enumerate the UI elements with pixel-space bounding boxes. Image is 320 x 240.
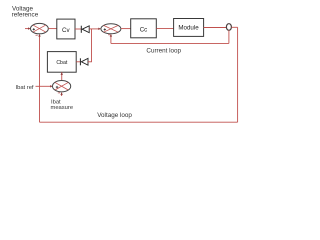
svg-text:Ibat ref: Ibat ref	[16, 85, 34, 91]
wire Ibat measure input	[61, 93, 63, 96]
summing junction SJ2	[101, 24, 121, 34]
diode D1	[80, 26, 82, 33]
wire current loop horizontal	[111, 42, 229, 44]
wire current loop drop from node	[228, 30, 230, 43]
svg-text:reference: reference	[12, 12, 39, 19]
wire right vertical drop	[237, 27, 239, 122]
block Cbat	[47, 52, 76, 73]
wire Cc to Module	[156, 28, 173, 30]
svg-text:Cc: Cc	[140, 27, 148, 34]
wire SJ2 to Cc	[121, 28, 131, 30]
svg-text:Module: Module	[178, 25, 199, 32]
wire Module to output node	[204, 27, 227, 29]
wire left feedback riser	[39, 35, 41, 123]
wire SJ3 to Cbat	[61, 72, 63, 81]
svg-text:Voltage loop: Voltage loop	[97, 112, 132, 119]
svg-text:measure: measure	[51, 105, 74, 111]
svg-text:Cbat: Cbat	[56, 60, 68, 66]
minus sign SJ2	[108, 34, 110, 36]
minus sign SJ3	[58, 92, 60, 94]
wire voltage reference input	[25, 28, 29, 30]
wire SJ1 to Cv	[48, 28, 57, 30]
svg-text:Current loop: Current loop	[146, 47, 181, 54]
block Cc	[131, 19, 157, 38]
wire node to right corner	[232, 26, 238, 28]
summing junction SJ3	[53, 81, 71, 92]
block Cv	[57, 19, 75, 39]
plus sign SJ2	[104, 29, 106, 31]
wire bottom feedback line	[40, 121, 238, 123]
plus sign SJ3	[56, 86, 58, 88]
wire current loop riser to SJ2	[110, 35, 112, 44]
wire junction riser from D2	[91, 29, 93, 62]
output node	[226, 24, 231, 31]
wire Ibat ref input	[36, 85, 51, 87]
summing junction SJ1	[31, 23, 49, 33]
wire Cv to diode D1	[75, 28, 81, 30]
block Module	[174, 19, 204, 37]
wire D2 to riser	[88, 61, 92, 63]
svg-text:Cv: Cv	[62, 27, 70, 34]
plus sign SJ1	[33, 28, 35, 30]
minus sign SJ1	[36, 34, 38, 36]
diode D2	[79, 58, 81, 65]
wire D1 to SJ2	[89, 28, 98, 30]
wire Cbat to diode D2	[76, 61, 80, 63]
